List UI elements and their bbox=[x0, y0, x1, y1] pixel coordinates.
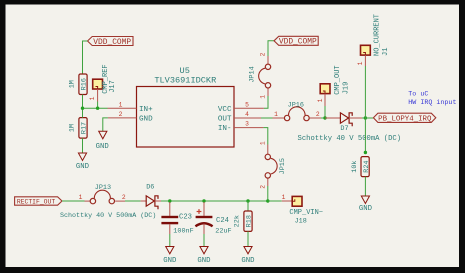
wire JP16 to D7 node bbox=[321, 117, 325, 119]
svg-text:22uF: 22uF bbox=[215, 227, 231, 235]
svg-text:2: 2 bbox=[119, 111, 123, 118]
svg-text:VDD_COMP: VDD_COMP bbox=[279, 38, 317, 47]
pin 1 of J17 bbox=[97, 89, 99, 102]
svg-text:VCC: VCC bbox=[218, 106, 232, 114]
wire pin2 to ground bbox=[103, 118, 108, 131]
wire node to J18 bbox=[268, 200, 282, 202]
svg-text:1M: 1M bbox=[69, 124, 77, 132]
wire pin3 to JP15 bbox=[263, 128, 267, 145]
wire R16 to junction bbox=[82, 95, 84, 109]
capacitor C23 bbox=[169, 202, 171, 216]
wire R18 to ground bbox=[247, 231, 249, 246]
junction at C24 bbox=[202, 199, 205, 202]
diode D6 bbox=[141, 200, 146, 202]
ground under C24 bbox=[200, 247, 208, 254]
junction at R18 bbox=[246, 199, 249, 202]
svg-text:1: 1 bbox=[274, 111, 278, 118]
connector pad NO_CURRENT J1 bbox=[361, 45, 371, 55]
resistor R18 bbox=[247, 201, 249, 211]
pin 1 of J18 bbox=[282, 200, 292, 202]
junction at R16/R17 bbox=[81, 107, 84, 110]
svg-text:J1: J1 bbox=[382, 48, 390, 56]
pin 1 of J19 bbox=[324, 94, 326, 106]
svg-text:J19: J19 bbox=[343, 82, 351, 95]
svg-text:2: 2 bbox=[259, 185, 266, 189]
svg-text:1: 1 bbox=[260, 95, 267, 99]
junction JP16/J19/D7 bbox=[323, 116, 326, 119]
global label PB_LOPY4_IRQ bbox=[365, 117, 373, 119]
junction at C23 bbox=[168, 199, 171, 202]
connector pad CMP_OUT J19 bbox=[320, 84, 330, 94]
svg-text:GND: GND bbox=[96, 143, 110, 151]
pin 1 of J1 bbox=[364, 55, 366, 66]
svg-text:GND: GND bbox=[139, 116, 153, 124]
wire pin5 up to JP14 bbox=[264, 96, 268, 108]
svg-text:1: 1 bbox=[357, 61, 364, 65]
svg-text:To uC: To uC bbox=[408, 90, 428, 98]
global label VDD_COMP (top middle) bbox=[274, 36, 318, 45]
svg-text:GND: GND bbox=[359, 205, 373, 213]
svg-text:2: 2 bbox=[122, 194, 126, 201]
wire C23 to ground bbox=[169, 234, 171, 247]
svg-text:VDD_COMP: VDD_COMP bbox=[93, 38, 131, 47]
svg-text:2: 2 bbox=[316, 111, 320, 118]
wire R17 to ground bbox=[82, 138, 84, 153]
svg-text:CMP_VIN−: CMP_VIN− bbox=[289, 209, 323, 217]
svg-text:C23: C23 bbox=[179, 214, 192, 222]
svg-text:J18: J18 bbox=[295, 218, 307, 226]
wire net to IC pin 1 bbox=[83, 107, 108, 109]
wire JP15 down to node bbox=[267, 186, 269, 201]
svg-text:RECTIF_OUT: RECTIF_OUT bbox=[17, 198, 56, 205]
jumper JP14 bbox=[259, 56, 271, 96]
svg-text:NO_CURRENT: NO_CURRENT bbox=[374, 14, 382, 56]
svg-text:1M: 1M bbox=[69, 80, 77, 88]
svg-text:1: 1 bbox=[79, 194, 83, 201]
svg-text:J17: J17 bbox=[109, 80, 117, 93]
pin 5 VCC bbox=[234, 107, 264, 109]
pin 1 IN+ bbox=[108, 107, 137, 109]
svg-text:PB_LOPY4_IRQ: PB_LOPY4_IRQ bbox=[378, 115, 432, 123]
svg-text:GND: GND bbox=[76, 163, 90, 171]
svg-text:100nF: 100nF bbox=[173, 227, 193, 235]
jumper JP15 bbox=[265, 145, 277, 187]
jumper JP16 bbox=[273, 107, 322, 121]
svg-text:R18: R18 bbox=[246, 215, 254, 227]
svg-text:IN-: IN- bbox=[218, 125, 232, 133]
svg-text:R24: R24 bbox=[363, 160, 371, 172]
svg-text:D7: D7 bbox=[340, 125, 348, 133]
svg-text:TLV3691IDCKR: TLV3691IDCKR bbox=[154, 76, 216, 86]
wire R24 to ground bbox=[364, 177, 366, 196]
svg-text:22k: 22k bbox=[234, 215, 242, 227]
svg-text:1: 1 bbox=[317, 98, 324, 102]
plus sign of C24 bbox=[197, 209, 202, 214]
capacitor C24 (polarized) bbox=[203, 202, 205, 216]
jumper JP13 bbox=[85, 190, 126, 204]
wire JP14 to VDD_COMP bbox=[268, 41, 274, 56]
svg-text:R17: R17 bbox=[81, 122, 89, 134]
svg-text:JP14: JP14 bbox=[249, 66, 257, 82]
junction D7/J1/R24/IRQ bbox=[364, 116, 367, 119]
svg-text:5: 5 bbox=[245, 101, 249, 108]
resistor R16 bbox=[79, 74, 87, 95]
pin 3 IN- bbox=[234, 127, 263, 129]
svg-text:3: 3 bbox=[245, 121, 249, 128]
svg-text:OUT: OUT bbox=[218, 116, 232, 124]
wire D6 to C23/C24/R18/JP15 node bbox=[161, 200, 276, 202]
svg-text:JP16: JP16 bbox=[288, 102, 304, 110]
ground under R18 bbox=[244, 247, 252, 254]
diode D7 bbox=[325, 117, 340, 119]
global label RECTIF_OUT bbox=[15, 197, 62, 205]
connector pad CMP_REF J17 bbox=[93, 79, 103, 89]
svg-text:1: 1 bbox=[282, 194, 286, 201]
svg-text:1: 1 bbox=[89, 96, 96, 100]
resistor R24 bbox=[361, 157, 369, 177]
svg-text:R16: R16 bbox=[81, 78, 89, 90]
pin 4 OUT bbox=[234, 117, 261, 119]
ground under R24 bbox=[361, 196, 369, 204]
svg-text:2: 2 bbox=[260, 52, 267, 56]
wire RECTIF_OUT to JP13 bbox=[62, 200, 85, 202]
global label VDD_COMP (left) bbox=[88, 37, 134, 46]
wire D7 to node bbox=[362, 117, 365, 119]
svg-text:1: 1 bbox=[259, 141, 266, 145]
svg-text:D6: D6 bbox=[146, 184, 154, 192]
svg-text:JP13: JP13 bbox=[95, 184, 111, 192]
wire pin4 to JP16 bbox=[261, 117, 273, 119]
svg-text:10k: 10k bbox=[351, 160, 359, 172]
svg-text:C24: C24 bbox=[216, 217, 229, 225]
svg-text:HW IRQ input: HW IRQ input bbox=[408, 99, 456, 107]
junction at JP15 bbox=[266, 199, 269, 202]
svg-text:GND: GND bbox=[241, 257, 255, 265]
connector pad CMP_VIN- J18 bbox=[292, 196, 302, 206]
svg-text:1: 1 bbox=[119, 101, 123, 108]
svg-text:GND: GND bbox=[197, 257, 211, 265]
ground under pin 2 bbox=[99, 131, 107, 139]
junction at J17 pin bbox=[96, 107, 99, 110]
wire JP13 to D6 bbox=[125, 200, 141, 202]
wire J1 down through node to R24 bbox=[364, 66, 366, 153]
svg-text:Schottky 40 V 500mA (DC): Schottky 40 V 500mA (DC) bbox=[298, 135, 402, 143]
resistor R17 bbox=[79, 118, 87, 139]
svg-text:GND: GND bbox=[163, 257, 177, 265]
ground under R17 bbox=[78, 153, 86, 161]
ground under C23 bbox=[166, 247, 174, 254]
svg-text:Schottky 40 V 500mA (DC): Schottky 40 V 500mA (DC) bbox=[60, 212, 156, 220]
op-amp U5 box bbox=[137, 87, 235, 148]
wire end dot above R24 bbox=[364, 151, 367, 154]
svg-text:IN+: IN+ bbox=[139, 106, 153, 114]
svg-text:4: 4 bbox=[245, 111, 249, 118]
wire C24 to ground bbox=[203, 234, 205, 247]
pin 2 GND bbox=[108, 117, 137, 119]
svg-text:JP15: JP15 bbox=[279, 158, 287, 174]
wire VDD_COMP to R16 bbox=[83, 41, 88, 74]
wire junction to R17 bbox=[82, 108, 84, 117]
svg-text:CMP_OUT: CMP_OUT bbox=[334, 65, 342, 94]
